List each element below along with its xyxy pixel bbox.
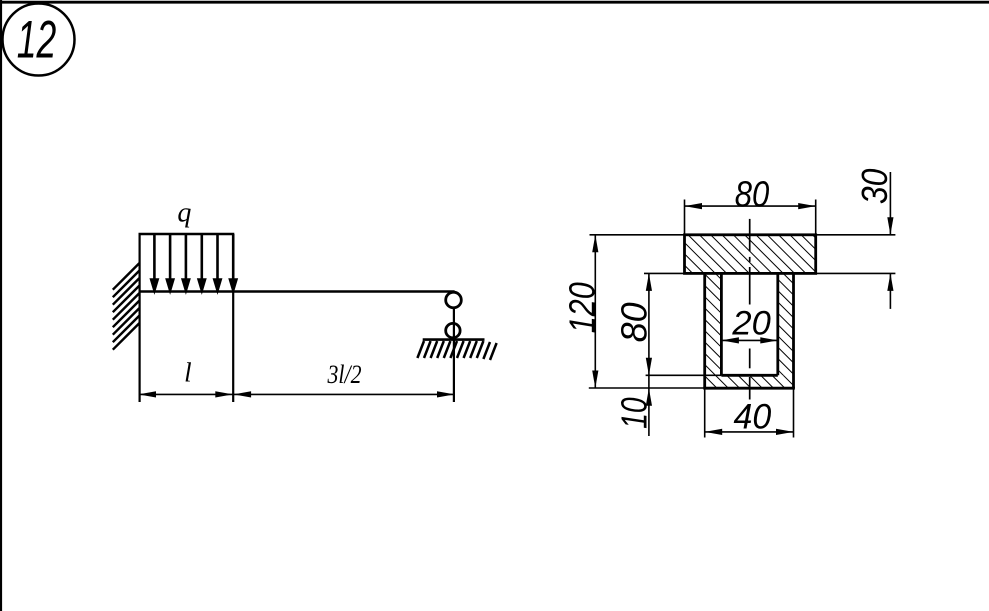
dim 80 top: extension lines xyxy=(684,200,686,235)
dim 120 left: dimension line xyxy=(594,235,596,388)
border frame top line xyxy=(0,1,989,4)
svg-text:12: 12 xyxy=(17,11,57,70)
bottom wall hatch xyxy=(705,375,794,388)
svg-text:40: 40 xyxy=(734,397,772,436)
distributed load arrows xyxy=(151,234,236,290)
border frame left line xyxy=(0,0,2,611)
right wall hatch xyxy=(778,273,794,375)
fixed wall line xyxy=(139,233,141,402)
svg-text:q: q xyxy=(177,197,191,228)
hollow bottom edge xyxy=(721,374,777,377)
stem bottom edge xyxy=(703,387,795,390)
svg-text:10: 10 xyxy=(614,397,655,429)
dim 30 right: extension lines xyxy=(816,234,896,236)
hollow right edge xyxy=(776,273,779,375)
problem number circle xyxy=(3,4,75,76)
distributed load top line xyxy=(139,233,235,236)
dim 30 right: dimension line segments with arrows xyxy=(889,172,891,235)
beam dimension line xyxy=(139,393,455,395)
dim 80 top: dimension line xyxy=(685,205,816,207)
flange hatch xyxy=(685,235,816,274)
dim 80 inner: extension lines xyxy=(644,272,685,274)
svg-text:120: 120 xyxy=(561,282,602,333)
dim 40: dimension line xyxy=(705,431,794,433)
dim 80 inner + dim 10: shared vertical dimension line xyxy=(648,273,650,436)
flange outline xyxy=(685,235,816,274)
beam line xyxy=(139,290,455,293)
svg-text:30: 30 xyxy=(854,169,895,205)
left wall hatch xyxy=(705,273,722,375)
extension line mid (load right edge) xyxy=(232,292,234,403)
stem left outer edge xyxy=(703,273,706,388)
svg-text:80: 80 xyxy=(735,173,770,214)
wall hatching xyxy=(113,263,140,350)
svg-text:l: l xyxy=(184,358,192,388)
dim 20: dimension line xyxy=(721,339,777,341)
ground hatching xyxy=(417,341,496,360)
centerline xyxy=(749,219,751,400)
hollow left edge xyxy=(720,273,723,375)
dim 40: extension lines xyxy=(704,388,706,437)
svg-text:3l/2: 3l/2 xyxy=(327,360,362,389)
svg-text:80: 80 xyxy=(614,302,655,342)
dim 120 left: extension lines xyxy=(590,234,685,236)
ground line xyxy=(423,338,485,341)
roller vertical line xyxy=(453,309,455,403)
stem right outer edge xyxy=(792,273,795,388)
roller support top circle xyxy=(446,292,462,308)
svg-text:20: 20 xyxy=(731,304,770,342)
roller support bottom circle xyxy=(446,323,460,337)
